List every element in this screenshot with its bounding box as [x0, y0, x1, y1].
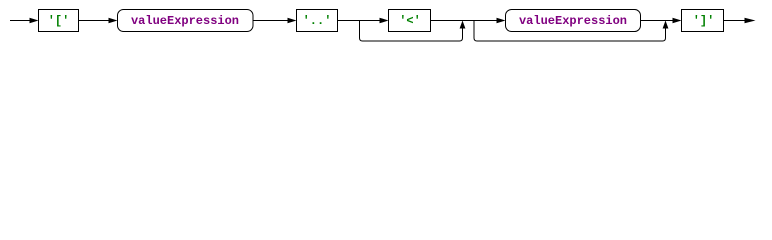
wire ']' to end	[724, 20, 747, 22]
arrowhead into '<'	[380, 18, 389, 24]
svg-text:valueExpression: valueExpression	[131, 14, 239, 28]
arrowhead up rejoining after '<'	[460, 21, 466, 29]
arrowhead into valueExpression	[109, 18, 118, 24]
svg-text:'<': '<'	[399, 14, 421, 28]
terminal '<'	[389, 10, 431, 32]
end arrowhead	[745, 18, 756, 24]
svg-text:']': ']'	[693, 14, 715, 28]
arrowhead into '['	[30, 18, 39, 24]
arrowhead into second valueExpression	[497, 18, 506, 24]
terminal '['	[39, 10, 79, 32]
wire '<' to valueExpression (second)	[431, 20, 498, 22]
bypass wire around second valueExpression	[474, 21, 666, 42]
wire second valueExpression to ']'	[641, 20, 674, 22]
svg-text:'[': '['	[48, 14, 70, 28]
arrowhead into ']'	[673, 18, 682, 24]
non-terminal valueExpression (first)	[118, 10, 254, 32]
arrowhead into '..'	[288, 18, 297, 24]
wire '[' to valueExpression	[79, 20, 110, 22]
wire valueExpression to '..'	[253, 20, 289, 22]
terminal ']'	[682, 10, 724, 32]
arrowhead up rejoining after second valueExpression	[663, 21, 669, 29]
wire '..' to '<'	[338, 20, 381, 22]
wire start line	[10, 20, 31, 22]
svg-text:valueExpression: valueExpression	[519, 14, 627, 28]
bypass wire around '<'	[360, 21, 463, 42]
terminal '..'	[297, 10, 338, 32]
non-terminal valueExpression (second)	[506, 10, 641, 32]
svg-text:'..': '..'	[303, 14, 332, 28]
